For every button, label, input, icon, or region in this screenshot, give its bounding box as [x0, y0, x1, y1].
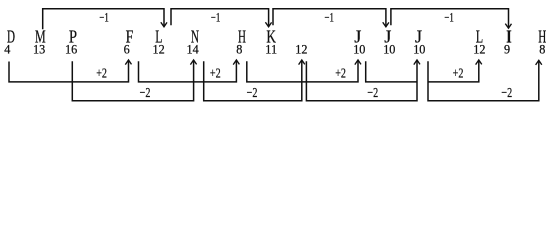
arrowhead up at H	[233, 60, 239, 65]
svg-text:12: 12	[153, 42, 165, 56]
arrowhead up at J1	[355, 60, 361, 65]
arrowhead up at 12	[299, 60, 305, 65]
svg-text:14: 14	[187, 42, 199, 56]
svg-text:−2: −2	[501, 86, 512, 101]
svg-text:8: 8	[236, 42, 242, 56]
wire bottom bracket J3 to L2 (+2)	[428, 60, 479, 82]
svg-text:4: 4	[4, 42, 10, 56]
svg-text:10: 10	[383, 42, 395, 56]
svg-text:−2: −2	[140, 86, 151, 101]
svg-text:10: 10	[353, 42, 365, 56]
svg-text:−2: −2	[247, 86, 258, 101]
arrowhead up at J3	[414, 60, 420, 65]
svg-text:9: 9	[504, 42, 510, 56]
arrowhead down at K	[265, 22, 271, 27]
arrowhead up at N	[190, 60, 196, 65]
arrowhead down at I	[505, 24, 511, 29]
svg-text:11: 11	[265, 42, 277, 56]
arrowhead up at F	[125, 60, 131, 65]
svg-text:13: 13	[33, 42, 45, 56]
svg-text:8: 8	[539, 42, 545, 56]
wire arc3 K to J2 (-1)	[273, 9, 386, 27]
svg-text:+2: +2	[335, 67, 346, 82]
wire bottom bracket J1 to J3 (+2)	[366, 61, 417, 82]
wire arc2 L to K (-1)	[171, 9, 269, 27]
arrowhead up at L2	[476, 60, 482, 65]
svg-text:12: 12	[295, 42, 307, 56]
svg-text:12: 12	[473, 42, 485, 56]
arrowhead down at L	[161, 22, 167, 27]
svg-text:6: 6	[124, 42, 130, 56]
wire lower bracket P to N (-2)	[72, 60, 193, 101]
svg-text:−1: −1	[99, 11, 108, 25]
svg-text:−1: −1	[211, 11, 220, 25]
svg-text:−1: −1	[444, 11, 453, 25]
wire bottom bracket D to F (+2)	[9, 60, 129, 82]
wire lower bracket J3 to H2 (-2)	[428, 60, 539, 101]
svg-text:−2: −2	[367, 86, 378, 101]
wire arc4 J2 to I (-1)	[391, 9, 509, 28]
svg-text:+2: +2	[210, 67, 221, 82]
svg-text:16: 16	[65, 42, 77, 56]
svg-text:−1: −1	[325, 11, 334, 25]
wire lower bracket 12 to J3 (-2)	[306, 60, 417, 101]
svg-text:10: 10	[413, 42, 425, 56]
wire arc1 M to L (-1)	[43, 9, 164, 30]
svg-text:+2: +2	[96, 67, 107, 82]
svg-text:+2: +2	[453, 67, 464, 82]
arrowhead up at H2	[536, 60, 542, 65]
wire bottom bracket H to J1 (+2)	[247, 60, 358, 82]
arrowhead down at J2	[383, 22, 389, 27]
wire lower bracket N to 12 (-2)	[204, 60, 302, 101]
wire bottom bracket F to H (+2)	[139, 60, 237, 82]
